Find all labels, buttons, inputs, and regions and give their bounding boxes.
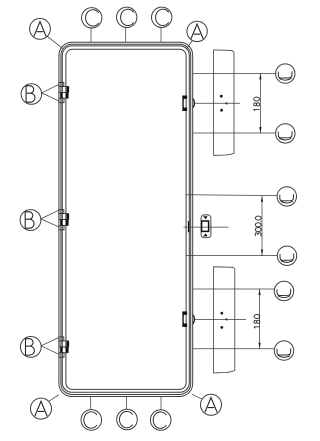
callout D6 right — [274, 341, 293, 360]
screw dot lower plate top — [220, 312, 223, 315]
door frame inner line — [66, 49, 186, 389]
leader C5 bottom — [125, 396, 127, 409]
leader C2 top — [125, 28, 127, 43]
screw dot upper plate top — [220, 95, 223, 98]
leader B3 upper — [41, 338, 59, 346]
callout C2 top — [117, 7, 137, 27]
centerline upper plate — [195, 102, 240, 104]
lock centerline — [184, 226, 229, 228]
leader C3 top — [160, 28, 162, 43]
dimension 300.0 middle — [255, 196, 263, 256]
callout B1 left upper — [21, 84, 42, 105]
leader C6 bottom — [160, 396, 162, 409]
callout D3 right — [277, 187, 296, 206]
lock body — [201, 215, 211, 238]
screw dot lower plate bottom — [220, 326, 223, 329]
center mark lower plate — [225, 318, 228, 321]
callout A4 bottom-right — [201, 394, 222, 415]
keeper bump lower outer — [193, 315, 195, 324]
leader A2 — [186, 41, 192, 50]
door frame outer line — [59, 42, 193, 396]
hinge H2 — [59, 210, 69, 230]
callout A3 bottom-left — [31, 398, 52, 419]
keeper bump upper outer — [193, 99, 195, 108]
callout C6 bottom — [150, 410, 171, 431]
lock bottom wedge — [203, 234, 208, 237]
lock tick on frame — [188, 221, 190, 232]
callout D1 right — [276, 64, 295, 83]
callout D2 right — [276, 124, 295, 143]
callout C5 bottom — [117, 409, 138, 430]
leader A4 — [192, 394, 203, 399]
centerline lower plate — [195, 319, 246, 321]
leader C1 top — [90, 28, 92, 42]
leader D4 — [186, 255, 278, 257]
callout C4 bottom — [81, 410, 102, 431]
door frame line 3 — [62, 46, 189, 392]
leader B3 lower — [41, 346, 59, 354]
callout A2 top-right — [187, 21, 207, 41]
hinge H1 — [59, 82, 69, 102]
door frame line 2 — [61, 44, 191, 394]
dimension 180 lower — [254, 289, 261, 349]
leader B1 lower — [42, 93, 59, 101]
lock top wedge — [203, 216, 208, 219]
leader D3 — [186, 194, 277, 197]
leader A1 — [47, 36, 62, 48]
leader D5 — [193, 288, 275, 290]
callout B3 left lower — [20, 337, 41, 358]
callout D4 right — [277, 246, 296, 265]
leader D1 — [193, 72, 276, 74]
lock inner rect — [202, 221, 209, 231]
leader B2 upper — [41, 210, 59, 219]
leader C4 bottom — [90, 396, 92, 409]
screw dot upper plate bottom — [220, 109, 223, 112]
leader D2 — [193, 132, 276, 134]
keeper bracket lower on frame — [183, 312, 186, 326]
callout B2 left middle — [20, 210, 41, 231]
callout C1 top — [82, 8, 102, 28]
center mark upper plate — [225, 102, 228, 105]
leader B1 upper — [42, 85, 59, 93]
keeper bracket upper on frame — [183, 96, 186, 110]
leader A3 — [49, 395, 59, 402]
callout D5 right — [274, 281, 293, 300]
strike plate lower — [214, 267, 235, 373]
strike plate upper — [214, 50, 234, 155]
dimension 180 upper — [254, 73, 262, 133]
leader D6 — [193, 348, 275, 350]
hinge H3 — [59, 337, 69, 357]
callout A1 top-left — [30, 19, 51, 40]
leader B2 lower — [41, 219, 59, 227]
callout C3 top — [152, 7, 172, 27]
